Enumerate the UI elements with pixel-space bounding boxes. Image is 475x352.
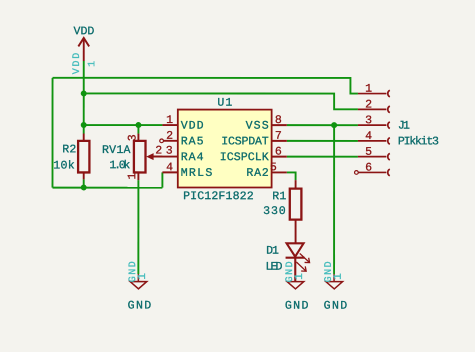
svg-text:7: 7 <box>275 130 282 143</box>
wire MRLS step <box>161 172 163 187</box>
pin 6 ICSPCLK (U1) <box>272 156 287 158</box>
svg-text:R2: R2 <box>62 143 76 156</box>
svg-text:VDD: VDD <box>181 120 204 133</box>
svg-text:R1: R1 <box>272 190 286 203</box>
pin 1 VDD (U1) <box>162 124 177 126</box>
wire GND drop right <box>333 125 335 274</box>
svg-text:RA4: RA4 <box>181 151 204 164</box>
junction at VDD row / R2 top <box>81 122 87 128</box>
pin 4 (J1) <box>358 140 387 142</box>
svg-text:1: 1 <box>87 61 98 67</box>
svg-text:PIkkit3: PIkkit3 <box>398 135 439 148</box>
svg-text:ICSPCLK: ICSPCLK <box>220 151 269 164</box>
svg-text:U1: U1 <box>217 97 232 110</box>
wire ICSPDAT to J1 pin4 <box>287 140 358 142</box>
svg-text:5: 5 <box>365 146 372 159</box>
svg-text:3: 3 <box>166 145 173 158</box>
wire RA2 to R1 <box>287 172 296 180</box>
svg-text:GND: GND <box>285 300 309 313</box>
connector J1 pins <box>355 90 390 176</box>
svg-text:1: 1 <box>365 83 372 96</box>
potentiometer RV1A <box>134 134 163 181</box>
junction at VDD/J1pin2 tap <box>81 90 87 96</box>
svg-text:1: 1 <box>126 173 139 180</box>
potentiometer wiper arrow <box>146 153 153 160</box>
LED D1 <box>286 243 305 281</box>
pin 2 RA5 (U1, unconnected) <box>164 140 178 142</box>
LED emission arrows <box>296 253 309 271</box>
svg-text:3: 3 <box>365 114 372 127</box>
svg-text:GND: GND <box>324 300 348 313</box>
pin 7 ICSPDAT (U1) <box>272 140 287 142</box>
svg-text:D1: D1 <box>266 245 279 258</box>
svg-text:VSS: VSS <box>246 120 269 133</box>
svg-text:GND: GND <box>128 300 152 313</box>
svg-text:VDD: VDD <box>74 25 95 38</box>
junction at RV1A top <box>135 122 141 128</box>
svg-text:10k: 10k <box>53 160 74 173</box>
pin 4 MRLS (U1) <box>162 171 177 173</box>
svg-text:PIC12F1822: PIC12F1822 <box>183 190 254 203</box>
svg-text:RA2: RA2 <box>246 167 268 180</box>
ground symbol left (RV1A) <box>130 274 147 289</box>
wire R2 bottom stub <box>83 179 85 187</box>
pin 1 (J1) <box>358 93 387 95</box>
svg-text:RV1A: RV1A <box>102 144 131 157</box>
svg-text:5: 5 <box>270 161 277 174</box>
svg-text:4: 4 <box>166 161 173 174</box>
wire bottom rail MCLR <box>52 187 162 189</box>
svg-text:J1: J1 <box>398 120 410 133</box>
svg-text:LED: LED <box>265 261 282 274</box>
svg-text:MRLS: MRLS <box>181 167 213 180</box>
pin 8 VSS (U1) <box>272 124 287 126</box>
resistor R2 <box>78 134 89 180</box>
svg-text:VDD: VDD <box>72 53 83 75</box>
svg-text:330: 330 <box>263 205 286 218</box>
pin 3 (J1) <box>358 124 387 126</box>
pin 5 (J1) <box>358 156 387 158</box>
svg-text:6: 6 <box>275 146 282 159</box>
resistor R1 <box>290 180 302 243</box>
svg-text:1.0k: 1.0k <box>109 159 130 172</box>
wire left rail vertical <box>51 78 53 188</box>
wire VDD horizontal to J1 pin2 <box>84 93 358 109</box>
svg-text:4: 4 <box>365 130 372 143</box>
svg-text:ICSPDAT: ICSPDAT <box>221 135 268 148</box>
svg-text:2: 2 <box>166 130 173 143</box>
svg-text:6: 6 <box>365 162 372 175</box>
wire VDD vertical drop <box>83 61 85 134</box>
svg-text:8: 8 <box>275 114 282 127</box>
svg-text:RA5: RA5 <box>181 135 204 148</box>
wire VSS row to J1 pin3 <box>287 124 358 126</box>
svg-text:1: 1 <box>294 273 306 280</box>
wire ICSPCLK to J1 pin5 <box>287 156 358 158</box>
junction at R2 bottom rail <box>81 184 87 190</box>
power symbol VDD (arrow) <box>78 38 89 61</box>
pin 2 (J1) <box>358 108 387 110</box>
svg-text:2: 2 <box>365 98 372 111</box>
pin 5 RA2 (U1) <box>272 171 287 173</box>
wire RV1A bottom to GND <box>137 180 139 274</box>
svg-text:1: 1 <box>166 114 173 127</box>
ground symbol right (VSS) <box>326 274 343 289</box>
wire VDD row to U1 pin1 <box>84 124 163 126</box>
wire RV1A top stub <box>137 125 139 134</box>
IC U1 PIC12F1822 body <box>178 110 272 188</box>
pin 3 RA4 (U1) <box>153 156 178 158</box>
wire MCLR top loop to J1 pin1 <box>53 78 358 94</box>
svg-text:1: 1 <box>333 273 345 280</box>
svg-text:3: 3 <box>127 134 140 141</box>
pin 6 (J1, unconnected) <box>355 171 359 175</box>
svg-text:1: 1 <box>137 273 149 280</box>
ground symbol middle (LED) <box>287 274 304 289</box>
junction at VSS/GND drop <box>331 122 337 128</box>
